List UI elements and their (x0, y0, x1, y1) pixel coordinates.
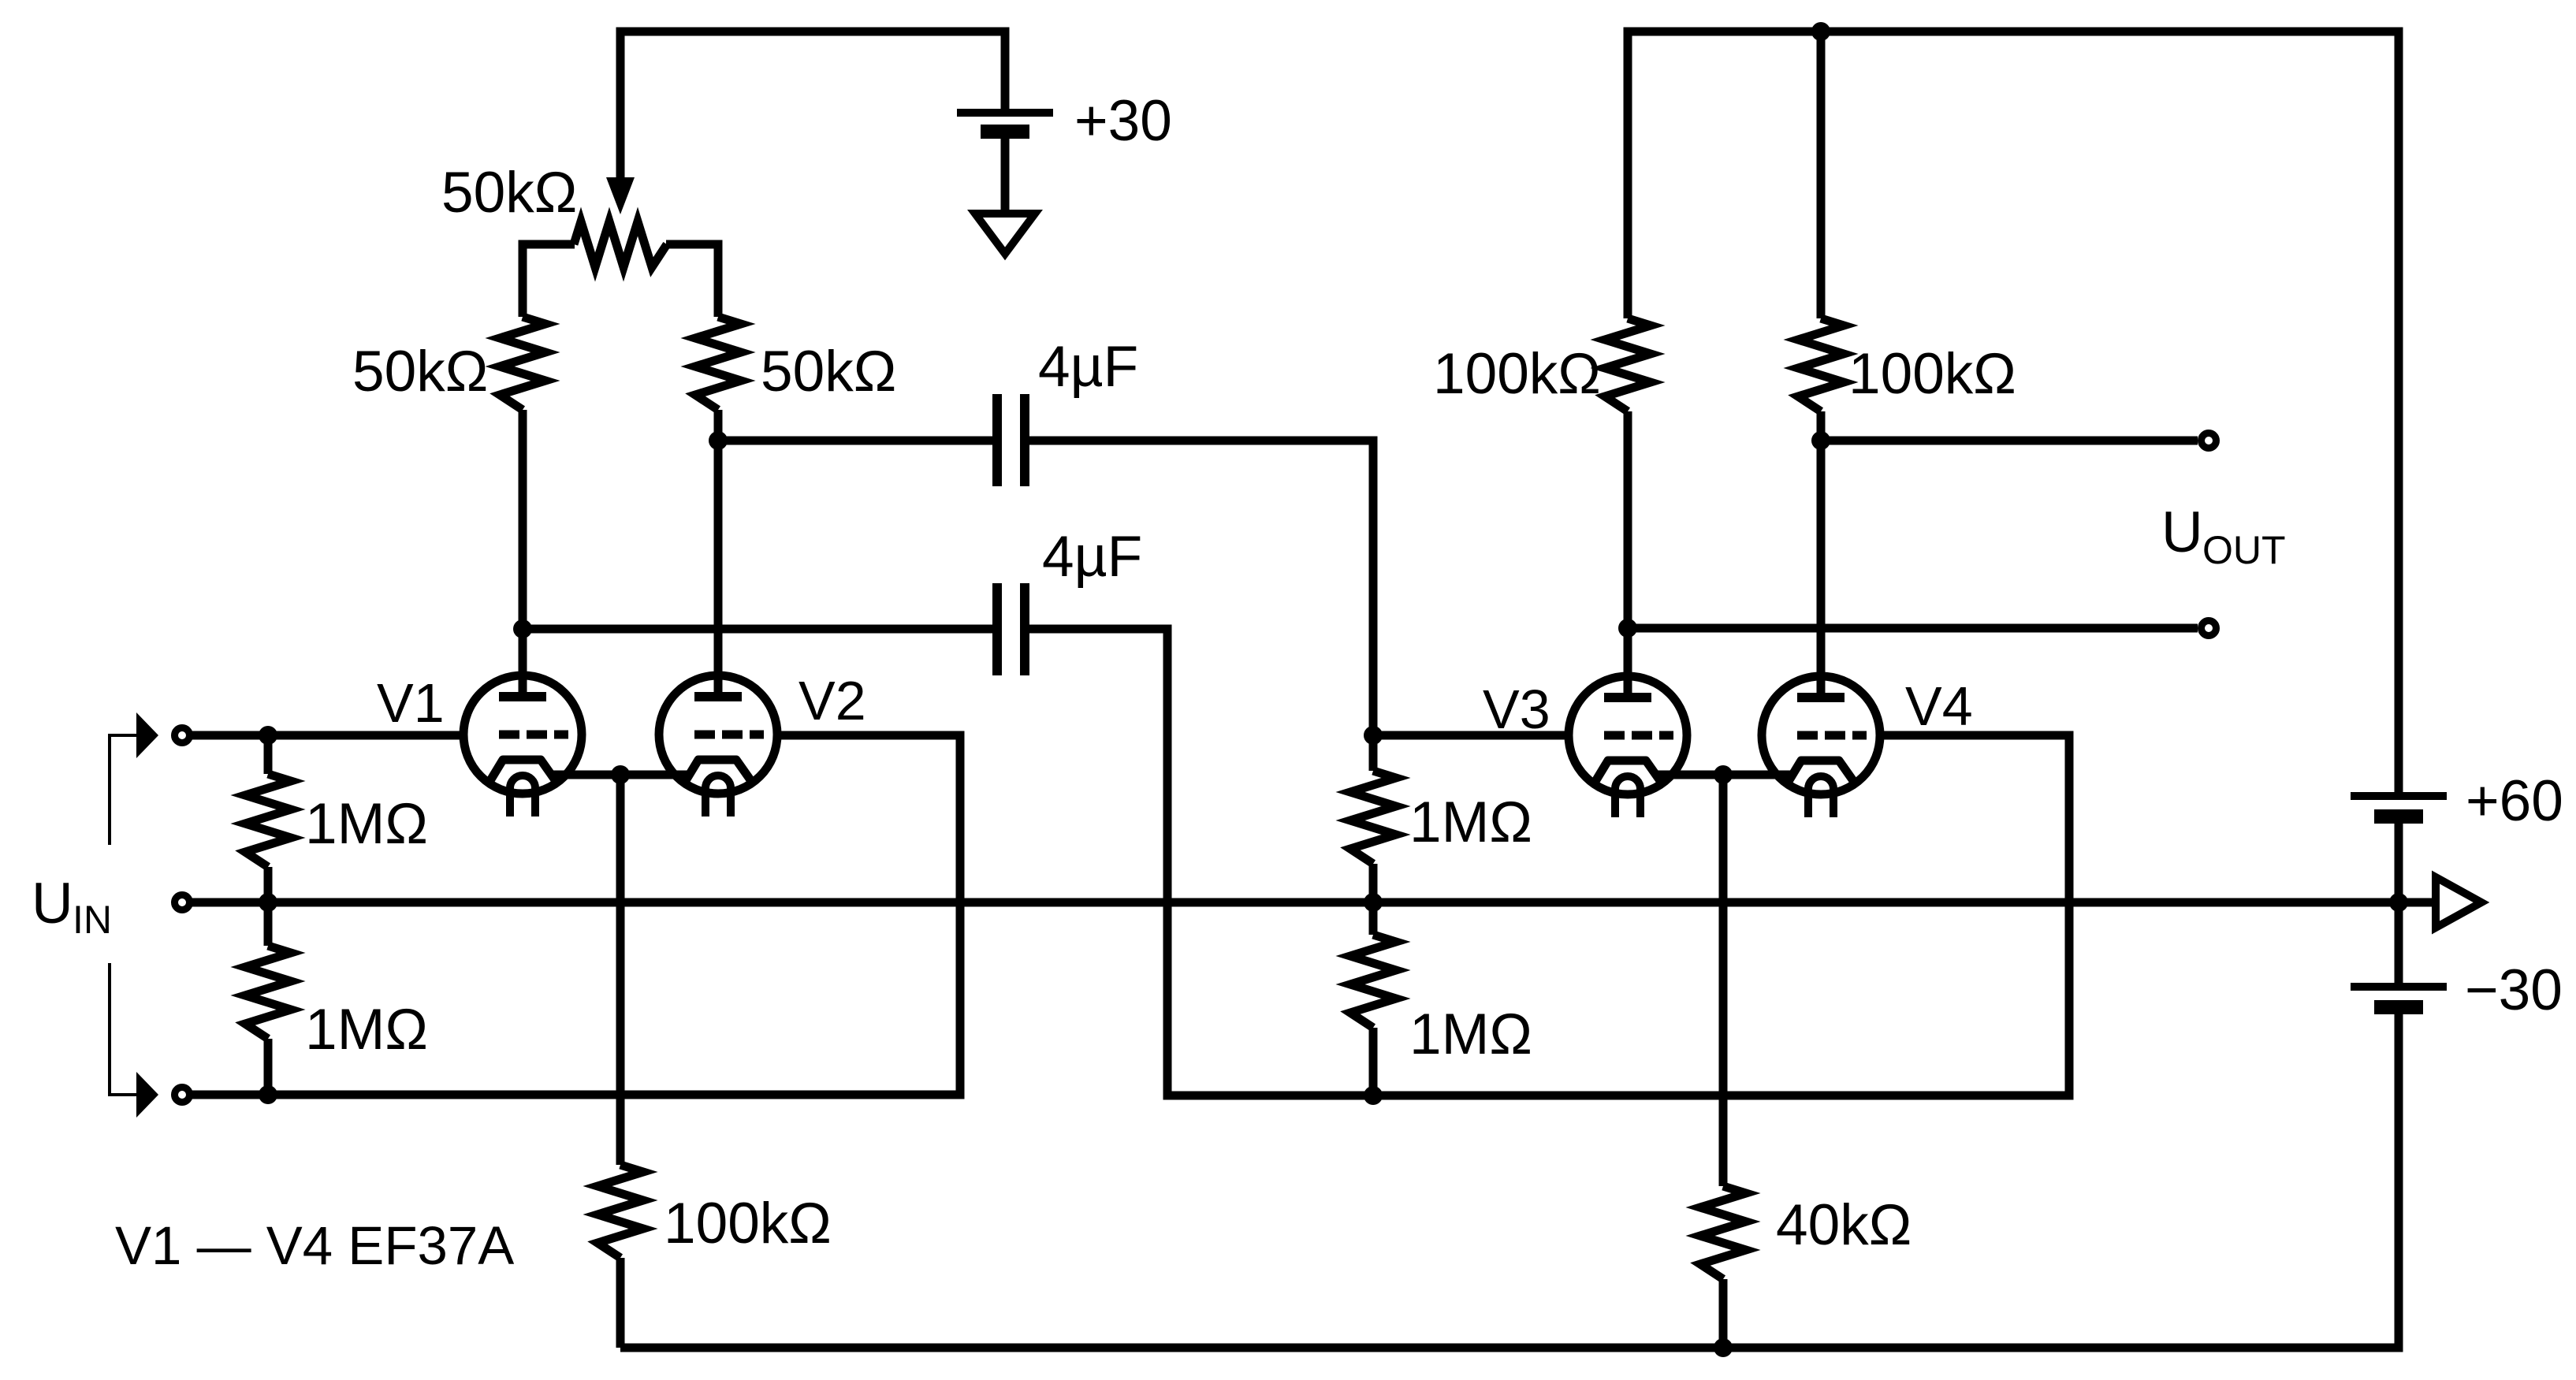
node: top rail junction (1811, 22, 1830, 41)
svg-text:50kΩ: 50kΩ (352, 340, 488, 404)
wire: right rail between batteries (2395, 816, 2403, 987)
wire: lower output lead (1628, 624, 2198, 633)
terminal: lower UIN input (175, 1088, 190, 1103)
resistor 100kΩ (V3 plate load) (1605, 318, 1651, 411)
wire: upper input line to V1 grid (192, 731, 463, 740)
svg-text:OUT: OUT (2202, 528, 2286, 572)
wire: input common (center) line (192, 898, 2399, 907)
node: lower input junction (259, 1085, 277, 1104)
node: V3 grid / 1MΩ junction (1364, 726, 1383, 745)
V3 cathode (1595, 761, 1661, 783)
resistor 1MΩ (V3 grid leak upper) (1350, 771, 1396, 864)
svg-text:1MΩ: 1MΩ (305, 792, 428, 856)
potentiometer wiper arrow (606, 177, 635, 214)
V2 grid (dashed) (694, 731, 764, 739)
svg-text:40kΩ: 40kΩ (1776, 1193, 1912, 1257)
svg-text:4µF: 4µF (1042, 525, 1142, 589)
output arrow stub (2399, 898, 2436, 907)
wire: right rail to bottom rail and back to tail resistor (620, 1007, 2399, 1348)
svg-text:U: U (32, 872, 73, 935)
svg-text:U: U (2161, 500, 2203, 564)
wire: input divider connections (264, 735, 273, 1095)
resistor 40kΩ (V3/V4 cathode tail) (1700, 1186, 1746, 1279)
wire: grid leak chain connections (1369, 735, 1378, 1095)
wire: V3 grid lead (1373, 731, 1567, 740)
terminal: upper UOUT (2202, 433, 2217, 448)
battery +60 (2351, 792, 2447, 800)
wire: lower input line around to V2 grid (192, 735, 960, 1095)
wire: V2 anode node to coupling cap C1 (718, 437, 997, 445)
vacuum tube V3 (EF37A) envelope (1569, 676, 1687, 794)
svg-text:50kΩ: 50kΩ (761, 340, 896, 404)
battery +30 (957, 109, 1053, 117)
wire: C1 to V3 grid node (1025, 441, 1373, 735)
wire: right 50kΩ to V2 anode node (714, 410, 723, 441)
wire: cathode junction down to 100kΩ tail resistor (616, 775, 625, 1165)
svg-text:1MΩ: 1MΩ (305, 998, 428, 1062)
svg-text:1MΩ: 1MΩ (1409, 1002, 1532, 1066)
battery −30 (2351, 983, 2447, 991)
svg-text:50kΩ: 50kΩ (441, 161, 577, 225)
wire: V2 anode lead (714, 441, 723, 698)
svg-text:V1 — V4 EF37A: V1 — V4 EF37A (115, 1215, 514, 1276)
svg-text:V2: V2 (798, 670, 866, 731)
svg-text:V1: V1 (377, 672, 445, 734)
capacitor 4µF (upper) (992, 394, 1002, 486)
node: center wire / grid leak junction (1364, 893, 1383, 912)
svg-text:+60: +60 (2466, 769, 2563, 833)
wire: left 50kΩ to V1 anode node (519, 410, 527, 629)
terminal: center UIN input (175, 895, 190, 910)
resistor 100kΩ (V1/V2 cathode tail) (597, 1165, 643, 1258)
node: upper input junction (259, 726, 277, 745)
V4 anode (plate) bar (1797, 693, 1845, 702)
wire: V4 plate resistor top lead (1817, 32, 1826, 318)
node: bottom rail junction (1714, 1338, 1733, 1357)
wire: pot left lead down to 50kΩ resistor (523, 244, 575, 317)
V2 heater filament and pins (705, 776, 731, 816)
node: V3/V4 cathode junction (1714, 765, 1733, 784)
capacitor 4µF (lower) (992, 583, 1002, 675)
svg-text:1MΩ: 1MΩ (1409, 790, 1532, 854)
wire: V1 anode lead (519, 629, 527, 698)
wire: V3 anode lead (1624, 411, 1632, 698)
V4 heater filament and pins (1808, 776, 1833, 817)
node: V4 grid return junction (1364, 1086, 1383, 1105)
wire: cathode junction down to 40kΩ tail resistor (1719, 775, 1728, 1186)
svg-text:−30: −30 (2465, 958, 2563, 1022)
V1 anode (plate) bar (499, 692, 546, 701)
wire: pot right lead down to 50kΩ resistor (666, 244, 718, 317)
resistor 1MΩ (input upper) (245, 774, 291, 867)
vacuum tube V4 (EF37A) envelope (1762, 676, 1880, 794)
node: V3 plate output junction (1618, 619, 1637, 638)
wire: tail resistor to bottom rail (616, 1258, 625, 1348)
input arrow (upper) (136, 712, 158, 758)
svg-text:100kΩ: 100kΩ (664, 1192, 832, 1255)
vacuum tube V2 (EF37A) envelope (659, 675, 777, 794)
V4 cathode (1788, 761, 1854, 783)
svg-text:V3: V3 (1483, 679, 1550, 740)
node: V1/V2 cathode junction (611, 765, 630, 784)
V1 heater filament and pins (510, 776, 535, 816)
wire: 40kΩ to bottom rail (1719, 1279, 1728, 1348)
wire: top right supply rail (1628, 32, 2399, 796)
svg-text:IN: IN (73, 898, 112, 942)
svg-text:+30: +30 (1074, 89, 1172, 153)
resistor 100kΩ (V4 plate load) (1798, 318, 1844, 411)
node: right rail output junction (2389, 893, 2408, 912)
wire: upper output lead (1821, 437, 2198, 445)
node: V2 anode junction (709, 431, 728, 450)
resistor 1MΩ (input lower) (245, 946, 291, 1039)
wire: C2 around to V4 grid (1025, 629, 2069, 1095)
wire: +30 supply top rail with pot wiper lead (620, 32, 1005, 177)
svg-text:100kΩ: 100kΩ (1848, 342, 2016, 406)
resistor 50kΩ (right) (695, 317, 741, 410)
V3 grid (dashed) (1604, 731, 1673, 740)
node: V4 plate output junction (1811, 431, 1830, 450)
resistor 50kΩ (left) (500, 317, 545, 410)
svg-text:100kΩ: 100kΩ (1433, 342, 1601, 406)
vacuum tube V1 (EF37A) envelope (463, 675, 582, 794)
svg-text:V4: V4 (1905, 675, 1973, 737)
output arrow (open) (2436, 877, 2481, 928)
V2 anode (plate) bar (694, 692, 742, 701)
resistor 1MΩ (V4 grid leak lower) (1350, 935, 1396, 1028)
wire: V1 anode node to coupling cap C2 (523, 625, 997, 634)
ground (975, 214, 1035, 254)
wire: V3/V4 cathode tie (1658, 771, 1791, 779)
V1 grid (dashed) (499, 731, 568, 739)
V3 anode (plate) bar (1604, 693, 1651, 702)
node: center input junction (259, 893, 277, 912)
terminal: lower UOUT (2202, 621, 2217, 636)
wire: V4 anode lead (1817, 411, 1826, 698)
node: V1 anode junction (513, 619, 532, 638)
input arrow (lower) (136, 1072, 158, 1118)
wire: battery to ground (1001, 132, 1010, 214)
V1 cathode (490, 760, 556, 782)
V3 heater filament and pins (1615, 776, 1640, 817)
wire: V1/V2 cathode tie (550, 771, 691, 779)
V4 grid (dashed) (1797, 731, 1867, 740)
V2 cathode (685, 760, 751, 782)
potentiometer 50kΩ body (574, 221, 667, 267)
input bracket (thin) (110, 735, 136, 1095)
terminal: upper UIN input (175, 728, 190, 743)
svg-text:4µF: 4µF (1038, 335, 1138, 399)
